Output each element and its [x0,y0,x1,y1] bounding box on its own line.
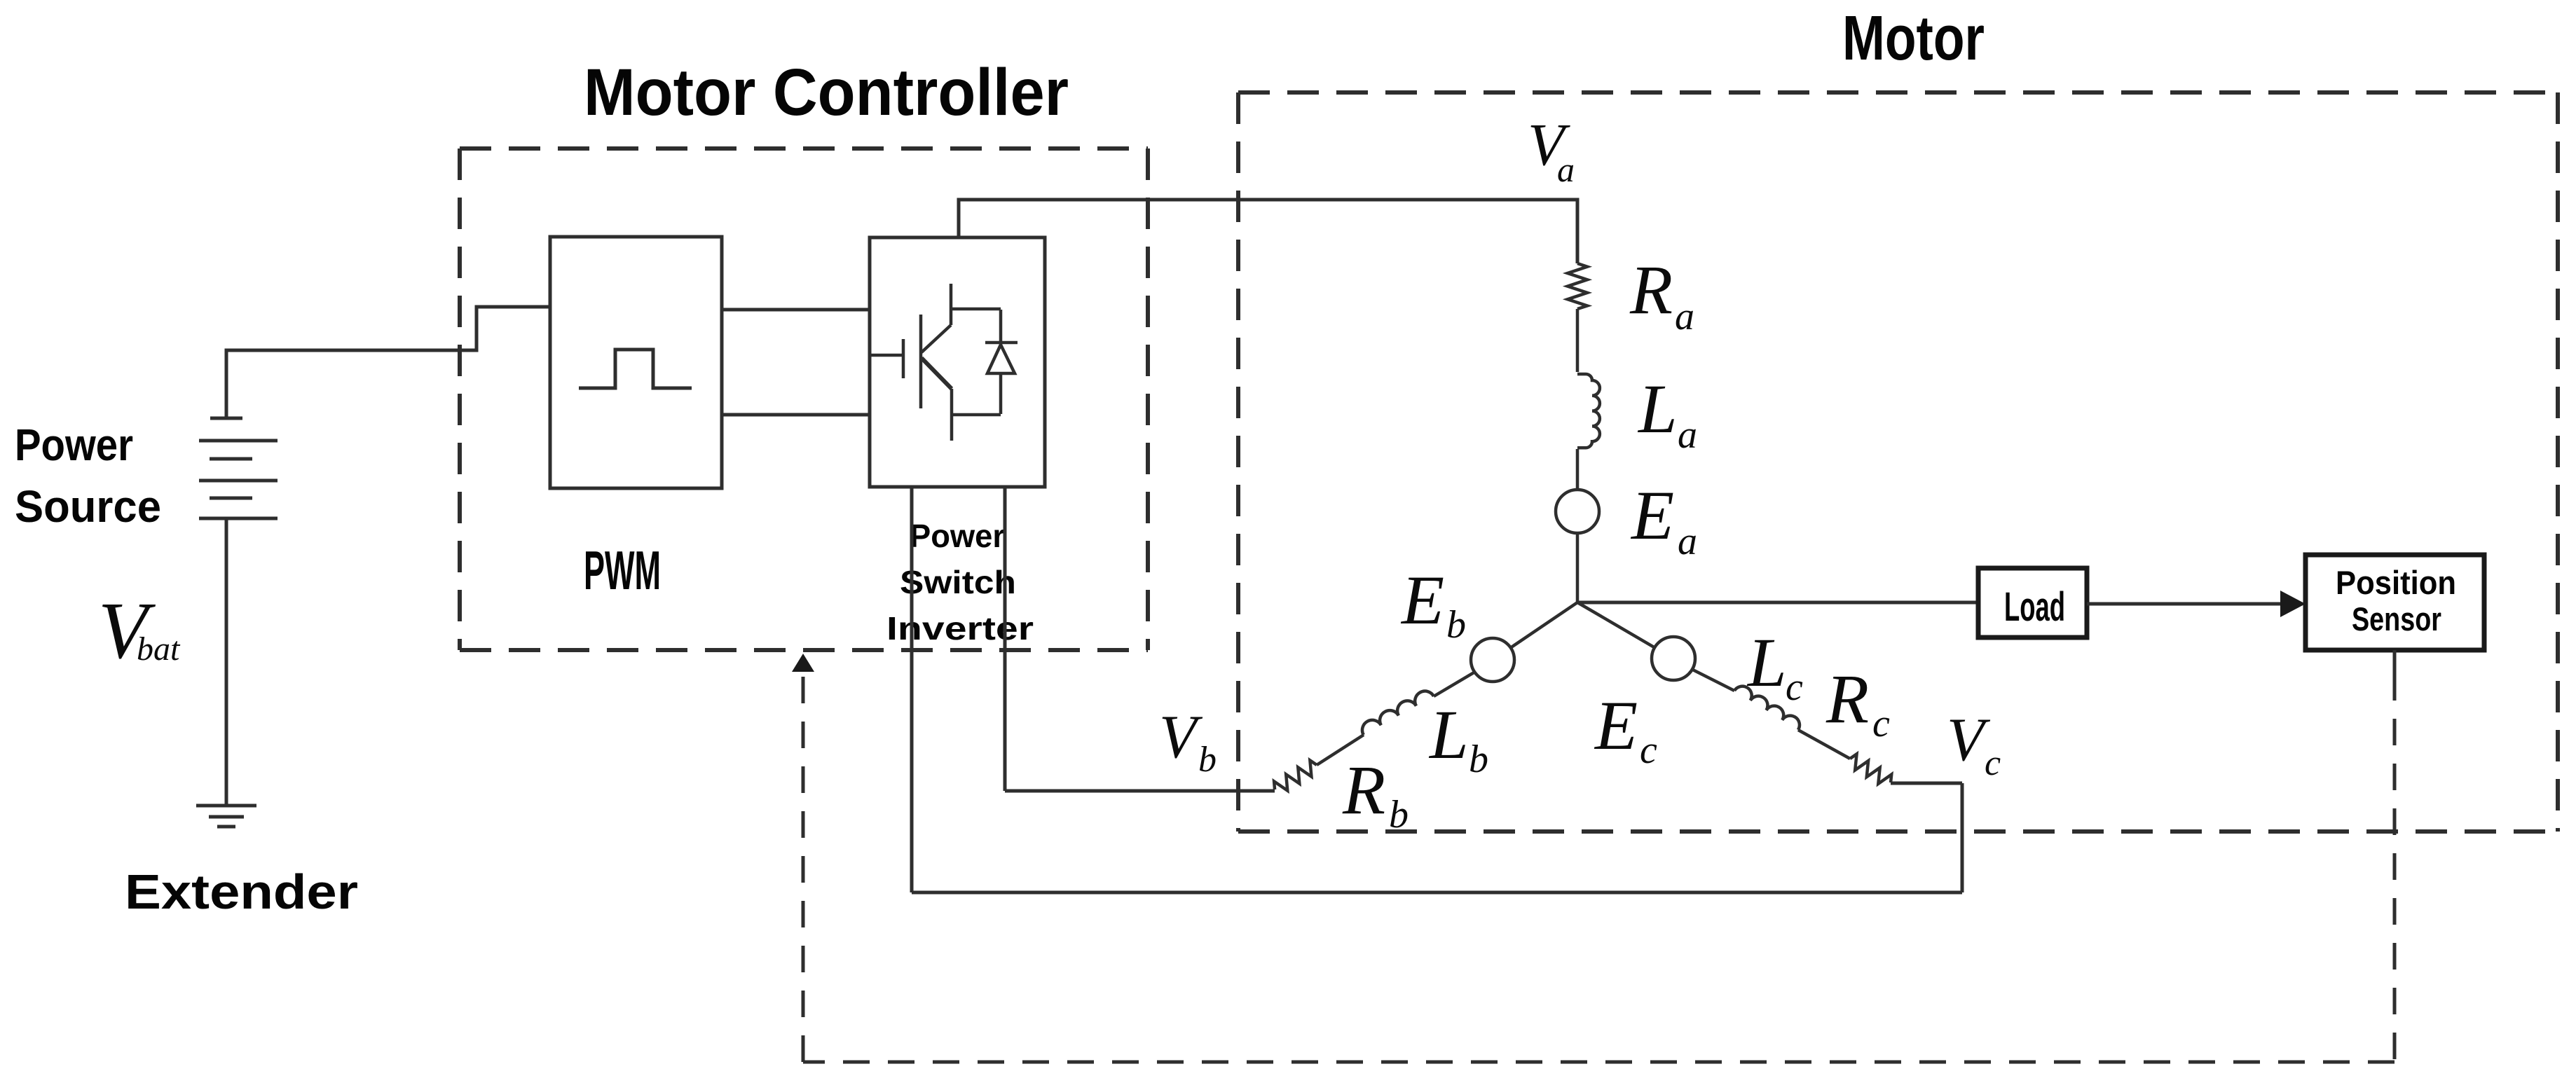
svg-text:a: a [1675,295,1694,338]
wire inverter left pin down [910,487,914,892]
emf source E_c circle [1652,637,1695,680]
svg-text:E: E [1400,561,1444,639]
pulse symbol inside PWM [579,350,692,388]
dashed box: Motor Controller [460,149,1148,650]
block: power switch inverter [870,237,1045,487]
resistor R_c [1847,752,1895,789]
wire Load to Position Sensor with arrow [2087,602,2282,606]
wire V_b horizontal [1005,789,1275,793]
gate bar [902,339,905,378]
svg-text:E: E [1594,687,1638,764]
svg-text:b: b [1469,738,1488,781]
svg-text:bat: bat [137,630,181,668]
svg-text:Position: Position [2336,564,2456,601]
top connector to diode [951,308,1001,311]
wire battery top to controller [226,307,550,418]
wire inverter right pin down to V_b [1003,487,1007,791]
svg-text:L: L [1637,370,1678,448]
dashed feedback: riser to controller [802,672,805,1062]
block: PWM [550,237,722,488]
svg-text:Motor: Motor [1842,4,1985,74]
emf source E_b circle [1471,638,1514,682]
diode vertical top [999,310,1003,343]
wires PWM to inverter [722,308,870,312]
wire: inverter top to V_a node [959,200,1577,263]
svg-text:a: a [1678,520,1697,563]
diode vertical bottom [999,374,1003,414]
block: Load [1978,568,2087,637]
wire L_b to R_b [1317,735,1364,765]
IGBT symbol U1 [871,284,1018,441]
inductor L_c [1734,683,1803,730]
wire E_b circle to L_b [1434,672,1474,696]
wire junction to E_c circle [1577,602,1654,647]
dashed box: Motor [1238,92,2558,832]
wire E_c circle to L_c [1692,670,1734,691]
svg-text:a: a [1557,150,1575,189]
wire L_c to R_c [1798,730,1850,759]
svg-text:R: R [1629,251,1673,329]
inductor L_a [1577,374,1600,448]
wire R_a to L_a [1576,309,1580,372]
wire R_c to V_c corner [1891,782,1962,785]
bottom connector to diode [952,413,1001,417]
svg-text:L: L [1428,696,1469,773]
diode cathode bar [985,341,1018,345]
svg-text:Motor Controller: Motor Controller [584,55,1069,130]
wire V_c down [1961,783,1964,892]
svg-text:b: b [1198,740,1217,780]
collector vertical [950,284,953,325]
emf source E_a circle [1556,490,1599,533]
feedback arrowhead [792,654,814,672]
svg-text:c: c [1985,743,2001,783]
svg-text:Inverter: Inverter [886,610,1034,647]
gate lead [871,354,903,357]
svg-text:a: a [1678,413,1697,457]
svg-text:b: b [1389,793,1409,836]
svg-text:R: R [1342,751,1385,829]
battery plates [210,417,242,420]
svg-text:Power: Power [15,420,133,470]
svg-text:Source: Source [15,481,161,532]
resistor R_a [1568,263,1587,309]
wire L_a to E_a [1576,449,1580,490]
svg-text:c: c [1786,665,1803,709]
emitter diagonal [922,358,952,389]
collector diagonal [922,325,951,352]
svg-text:PWM: PWM [584,539,661,601]
ground [196,804,256,808]
wire sensor bottom solid stub [2393,650,2397,674]
wire E_a to star junction [1576,533,1580,602]
svg-text:V: V [1159,703,1203,771]
svg-text:Load: Load [2004,584,2065,630]
wire battery bottom to ground [225,518,228,806]
svg-text:Power: Power [910,518,1005,554]
emitter vertical [950,389,954,441]
wire junction to E_b circle [1511,602,1577,648]
body bar [919,315,923,408]
resistor R_b [1271,759,1321,796]
svg-text:Sensor: Sensor [2352,600,2441,637]
wire junction to Load [1577,601,1978,605]
battery V_bat (power source) [196,307,550,827]
diode triangle [987,345,1015,373]
block: Position Sensor [2306,555,2484,650]
svg-text:R: R [1825,660,1869,738]
inductor L_b [1359,687,1434,735]
wire V_c return to inverter [912,891,1962,895]
svg-text:c: c [1872,702,1890,745]
dashed feedback: bottom run [803,1061,2395,1064]
svg-text:Switch: Switch [900,564,1016,600]
svg-text:b: b [1446,603,1466,647]
svg-text:E: E [1630,476,1674,554]
dashed feedback: sensor drop [2393,674,2397,1062]
svg-text:c: c [1640,729,1657,772]
svg-text:L: L [1746,623,1787,701]
svg-text:Extender: Extender [125,864,358,919]
